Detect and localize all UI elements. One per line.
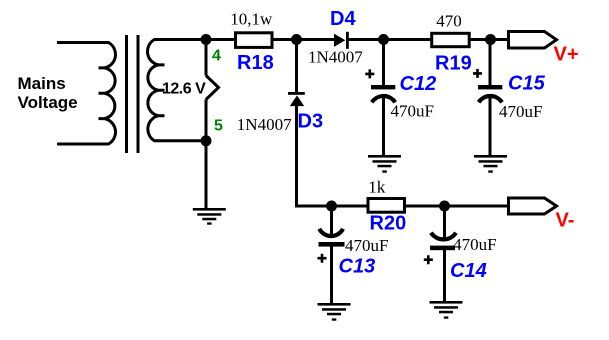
svg-text:470: 470	[436, 11, 462, 30]
svg-text:R19: R19	[435, 52, 472, 74]
wire R18 to node A	[272, 38, 297, 41]
wire voltage marker to node5	[205, 100, 208, 141]
junction node A (R18/D4/D3)	[291, 34, 302, 45]
svg-text:D4: D4	[330, 8, 356, 30]
junction node D (D3/C13/R20)	[326, 201, 337, 212]
diode D4	[334, 32, 349, 49]
wire node A to D4 anode	[297, 38, 336, 41]
svg-text:12.6 V: 12.6 V	[162, 81, 206, 98]
wire node D down to C13	[330, 206, 333, 235]
svg-text:C15: C15	[508, 73, 546, 95]
wire R19 to node C	[469, 38, 491, 41]
svg-text:Mains: Mains	[18, 74, 66, 93]
diode D3	[288, 92, 305, 106]
wire C13 to ground	[330, 246, 333, 304]
svg-text:R20: R20	[370, 213, 407, 235]
ground below C12	[368, 155, 401, 173]
capacitor C12	[365, 69, 395, 102]
wire node C to V+ tag	[491, 38, 509, 41]
ground below C13	[318, 303, 351, 321]
capacitor C14	[424, 233, 456, 265]
resistor R18 body	[236, 33, 273, 48]
wire R20 to node E	[405, 205, 445, 208]
wire D3 anode down and right to node D	[297, 106, 332, 206]
wire node E down to C14	[443, 206, 446, 239]
svg-text:470uF: 470uF	[499, 102, 542, 121]
svg-text:470uF: 470uF	[345, 236, 388, 255]
svg-text:C12: C12	[400, 73, 437, 95]
wire C12 to ground	[382, 98, 385, 157]
junction node 5	[201, 135, 212, 146]
V- output tag	[509, 198, 557, 214]
svg-text:1k: 1k	[368, 177, 386, 196]
svg-text:1N4007: 1N4007	[308, 47, 363, 66]
capacitor C13	[318, 229, 345, 263]
svg-text:5: 5	[214, 118, 223, 135]
junction node C (R19/C15/V+)	[485, 34, 496, 45]
capacitor C15	[473, 69, 502, 102]
V+ output tag	[509, 32, 557, 49]
svg-text:10,1w: 10,1w	[230, 9, 273, 28]
junction node 4	[201, 34, 212, 45]
ground below transformer	[193, 208, 226, 225]
secondary winding loop ticks	[159, 65, 165, 116]
svg-text:C13: C13	[339, 256, 376, 278]
wire node4 to R18	[206, 38, 235, 41]
wire node D to R20	[332, 205, 369, 208]
transformer core	[127, 35, 139, 153]
svg-text:Voltage: Voltage	[18, 93, 78, 112]
svg-text:470uF: 470uF	[391, 102, 434, 121]
primary winding loop ticks	[99, 68, 105, 119]
svg-text:1N4007: 1N4007	[237, 115, 292, 134]
12.6V measurement kink	[206, 76, 219, 100]
transformer T1 primary winding	[57, 43, 116, 145]
svg-text:V+: V+	[554, 44, 579, 66]
wire node4 to voltage marker	[205, 40, 208, 76]
junction node E (R20/C14/V-)	[439, 201, 450, 212]
junction node B (D4/C12/R19)	[378, 34, 389, 45]
wire node B to R19	[384, 38, 432, 41]
resistor R19 body	[432, 33, 470, 46]
svg-text:4: 4	[212, 48, 221, 65]
wire C15 to ground	[489, 98, 492, 157]
resistor R20 body	[368, 199, 405, 213]
svg-text:R18: R18	[237, 52, 274, 74]
svg-text:470uF: 470uF	[453, 235, 496, 254]
wire node A down to D3 cathode	[295, 40, 298, 93]
svg-text:C14: C14	[450, 260, 487, 282]
transformer secondary winding	[147, 40, 206, 141]
wire D4 cathode to node B	[349, 38, 384, 41]
wire node5 to ground	[205, 141, 208, 209]
wire C14 to ground	[443, 250, 446, 302]
wire node C down to C15	[489, 40, 492, 86]
svg-text:V-: V-	[556, 210, 575, 232]
ground below C14	[430, 301, 463, 319]
svg-text:D3: D3	[298, 110, 324, 132]
wire node E to V- tag	[445, 205, 509, 208]
ground below C15	[474, 155, 507, 173]
wire node B down to C12	[382, 40, 385, 86]
